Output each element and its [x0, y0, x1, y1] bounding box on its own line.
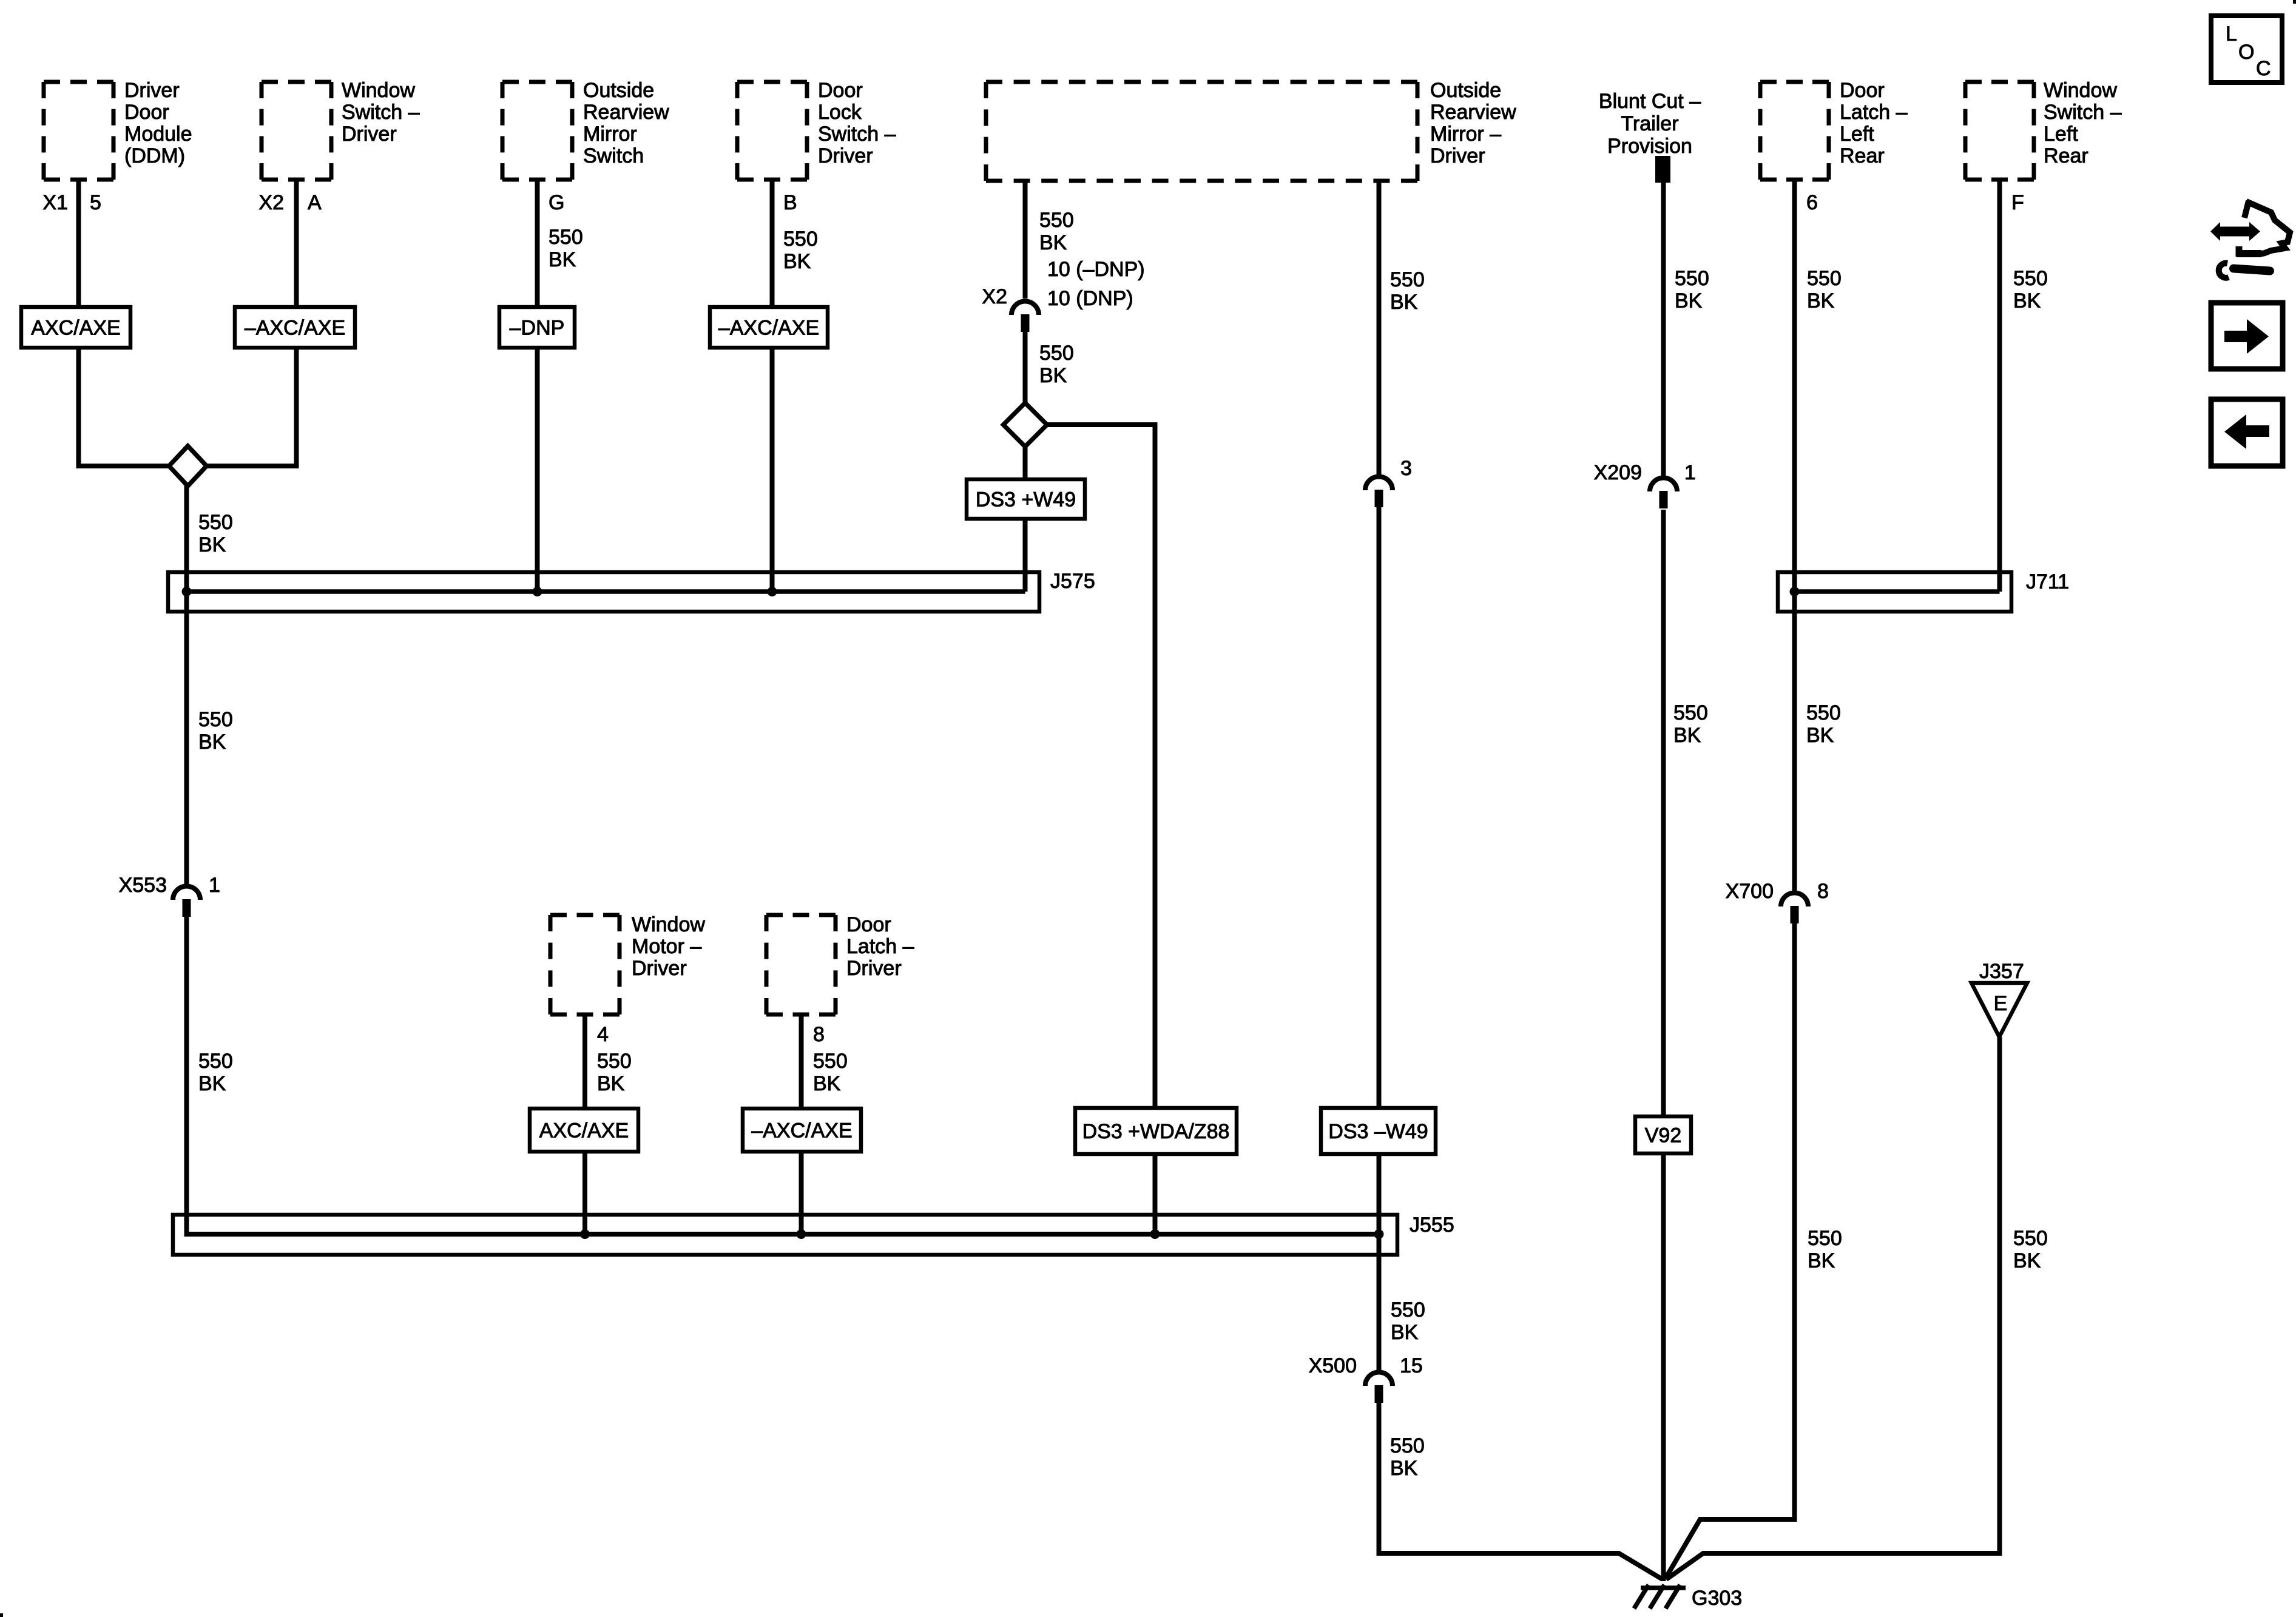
svg-text:C: C	[2256, 57, 2271, 80]
svg-text:Switch –: Switch –	[818, 123, 896, 146]
svg-text:Rear: Rear	[2044, 144, 2088, 167]
svg-text:J575: J575	[1050, 570, 1095, 593]
svg-text:BK: BK	[1807, 289, 1835, 312]
svg-text:Driver: Driver	[342, 123, 397, 146]
svg-text:Door: Door	[124, 101, 169, 124]
svg-text:–AXC/AXE: –AXC/AXE	[751, 1119, 852, 1143]
svg-text:BK: BK	[2013, 289, 2041, 312]
svg-text:Rearview: Rearview	[583, 101, 669, 124]
svg-text:J555: J555	[1410, 1214, 1454, 1237]
svg-text:A: A	[308, 191, 322, 214]
svg-text:Left: Left	[1840, 123, 1874, 146]
svg-text:Window: Window	[632, 913, 705, 936]
svg-text:X500: X500	[1309, 1354, 1357, 1377]
svg-text:10 (DNP): 10 (DNP)	[1047, 287, 1133, 310]
svg-text:4: 4	[597, 1023, 609, 1046]
svg-text:X553: X553	[119, 874, 167, 897]
svg-text:E: E	[1994, 992, 2008, 1015]
svg-text:BK: BK	[1675, 289, 1703, 312]
svg-text:Switch: Switch	[583, 144, 644, 167]
svg-text:550: 550	[813, 1050, 848, 1073]
svg-text:BK: BK	[1806, 724, 1834, 747]
svg-text:BK: BK	[198, 533, 226, 556]
svg-text:BK: BK	[2013, 1249, 2041, 1272]
svg-text:–DNP: –DNP	[510, 317, 565, 340]
svg-text:BK: BK	[198, 1072, 226, 1095]
svg-text:X700: X700	[1726, 880, 1774, 903]
svg-text:5: 5	[90, 191, 101, 214]
svg-text:Module: Module	[124, 123, 192, 146]
svg-text:550: 550	[1039, 209, 1074, 232]
svg-text:Rear: Rear	[1840, 144, 1885, 167]
svg-text:Window: Window	[342, 79, 415, 102]
svg-text:X1: X1	[42, 191, 68, 214]
svg-text:Latch –: Latch –	[1840, 101, 1908, 124]
svg-text:BK: BK	[1390, 291, 1418, 314]
svg-text:Switch –: Switch –	[342, 101, 420, 124]
svg-text:BK: BK	[783, 250, 811, 273]
svg-text:1: 1	[1684, 461, 1696, 484]
svg-text:O: O	[2238, 41, 2254, 64]
svg-text:AXC/AXE: AXC/AXE	[31, 317, 120, 340]
svg-text:Blunt Cut –: Blunt Cut –	[1599, 90, 1701, 113]
svg-text:Switch –: Switch –	[2044, 101, 2122, 124]
svg-text:G: G	[549, 191, 564, 214]
svg-text:Driver: Driver	[1430, 144, 1485, 167]
svg-text:Motor –: Motor –	[632, 935, 701, 958]
svg-text:X2: X2	[258, 191, 284, 214]
svg-text:–AXC/AXE: –AXC/AXE	[718, 317, 819, 340]
svg-text:(DDM): (DDM)	[124, 144, 185, 167]
svg-text:BK: BK	[1039, 231, 1067, 254]
svg-text:BK: BK	[198, 731, 226, 754]
svg-text:G303: G303	[1692, 1587, 1742, 1610]
svg-text:550: 550	[198, 708, 233, 731]
svg-text:6: 6	[1806, 191, 1818, 214]
svg-text:550: 550	[1391, 1298, 1425, 1322]
svg-text:Left: Left	[2044, 123, 2078, 146]
svg-text:Provision: Provision	[1607, 135, 1692, 158]
svg-text:AXC/AXE: AXC/AXE	[539, 1119, 629, 1143]
svg-text:Mirror –: Mirror –	[1430, 123, 1501, 146]
svg-text:J711: J711	[2026, 570, 2069, 593]
svg-text:550: 550	[198, 511, 233, 534]
svg-text:BK: BK	[813, 1072, 841, 1095]
svg-text:1: 1	[209, 874, 220, 897]
svg-text:Latch –: Latch –	[846, 935, 914, 958]
svg-text:Door: Door	[1840, 79, 1885, 102]
svg-text:X2: X2	[982, 285, 1007, 308]
svg-text:550: 550	[1807, 267, 1842, 290]
svg-text:Door: Door	[846, 913, 891, 936]
svg-text:J357: J357	[1979, 960, 2024, 983]
svg-text:550: 550	[1390, 1434, 1425, 1457]
svg-text:BK: BK	[597, 1072, 625, 1095]
svg-text:Outside: Outside	[1430, 79, 1501, 102]
svg-text:Driver: Driver	[818, 144, 873, 167]
svg-text:BK: BK	[1039, 364, 1067, 387]
svg-text:550: 550	[783, 228, 818, 251]
svg-text:DS3 +W49: DS3 +W49	[976, 488, 1076, 511]
svg-text:550: 550	[1806, 701, 1841, 724]
svg-text:550: 550	[1675, 267, 1709, 290]
svg-text:550: 550	[2013, 1227, 2048, 1250]
svg-text:550: 550	[1808, 1227, 1842, 1250]
svg-text:F: F	[2011, 191, 2024, 214]
svg-text:Driver: Driver	[124, 79, 180, 102]
svg-text:BK: BK	[1391, 1321, 1419, 1344]
svg-text:DS3 –W49: DS3 –W49	[1328, 1120, 1428, 1143]
svg-text:–AXC/AXE: –AXC/AXE	[245, 317, 345, 340]
svg-text:BK: BK	[1673, 724, 1701, 747]
svg-text:550: 550	[1390, 268, 1425, 291]
svg-text:550: 550	[549, 226, 583, 249]
svg-text:L: L	[2226, 22, 2237, 46]
svg-text:BK: BK	[549, 248, 576, 271]
svg-text:15: 15	[1400, 1354, 1423, 1377]
svg-text:BK: BK	[1808, 1249, 1835, 1272]
svg-text:Driver: Driver	[846, 957, 902, 980]
svg-text:Rearview: Rearview	[1430, 101, 1516, 124]
svg-text:DS3 +WDA/Z88: DS3 +WDA/Z88	[1082, 1120, 1230, 1143]
svg-text:3: 3	[1400, 457, 1412, 480]
svg-text:Driver: Driver	[632, 957, 687, 980]
svg-text:Door: Door	[818, 79, 863, 102]
svg-text:8: 8	[1817, 880, 1829, 903]
svg-text:V92: V92	[1645, 1124, 1682, 1147]
svg-text:Window: Window	[2044, 79, 2117, 102]
svg-text:550: 550	[1673, 701, 1708, 724]
svg-text:B: B	[783, 191, 797, 214]
svg-text:550: 550	[198, 1050, 233, 1073]
svg-text:BK: BK	[1390, 1457, 1418, 1480]
svg-text:Mirror: Mirror	[583, 123, 637, 146]
svg-text:550: 550	[2013, 267, 2048, 290]
svg-text:X209: X209	[1594, 461, 1642, 484]
svg-text:550: 550	[1039, 342, 1074, 365]
svg-text:Trailer: Trailer	[1621, 112, 1678, 135]
svg-text:Lock: Lock	[818, 101, 862, 124]
svg-text:550: 550	[597, 1050, 632, 1073]
svg-text:Outside: Outside	[583, 79, 654, 102]
svg-text:8: 8	[813, 1023, 825, 1046]
svg-text:10 (–DNP): 10 (–DNP)	[1047, 258, 1145, 281]
